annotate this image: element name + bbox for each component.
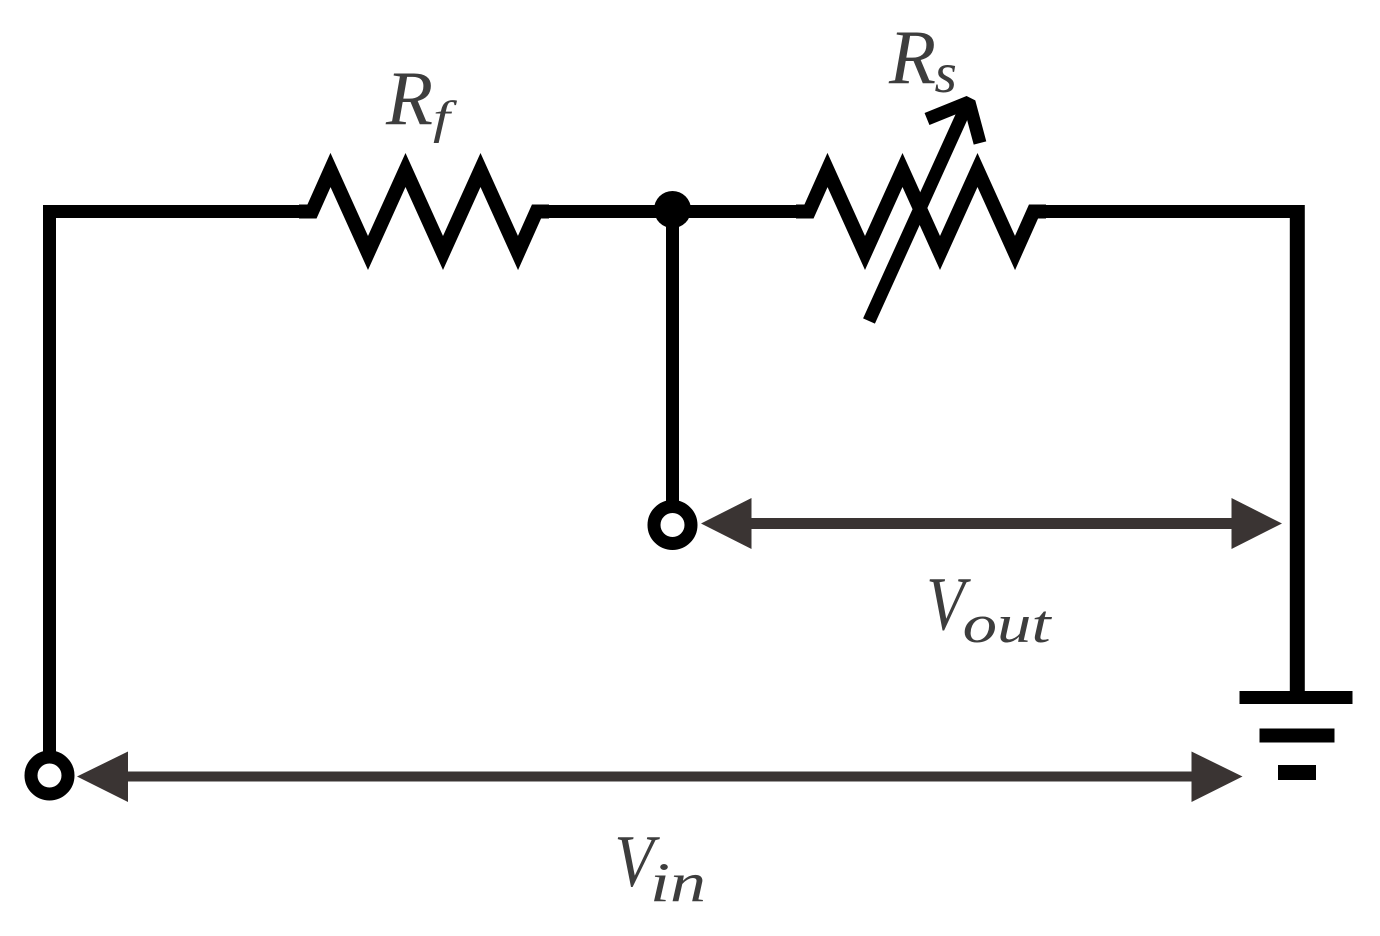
svg-text:out: out <box>963 594 1054 654</box>
svg-text:s: s <box>935 42 957 105</box>
wire: top-left horizontal and left vertical <box>50 212 313 754</box>
Vin arrow (double-headed) <box>77 752 1243 803</box>
resistor Rf <box>299 170 549 253</box>
node junction dot <box>654 191 691 228</box>
wire: junction down to output terminal <box>666 210 679 504</box>
svg-text:R: R <box>888 14 936 100</box>
svg-text:in: in <box>650 852 706 914</box>
Rs variable arrow shaft <box>869 107 966 321</box>
resistor Rs (variable) <box>796 170 1046 253</box>
Vout arrow (double-headed) <box>701 498 1282 549</box>
wire: right vertical to ground <box>1290 205 1305 692</box>
svg-text:f: f <box>433 91 458 144</box>
wire: Rs to right corner, down to ground <box>1034 205 1298 218</box>
terminal: input (open circle) <box>31 757 68 794</box>
svg-text:R: R <box>385 55 433 141</box>
Rs variable arrow head <box>927 102 980 143</box>
ground <box>1240 691 1353 780</box>
terminal: output node (open circle) <box>654 507 691 544</box>
wire: Rf to Rs through junction <box>537 205 810 218</box>
